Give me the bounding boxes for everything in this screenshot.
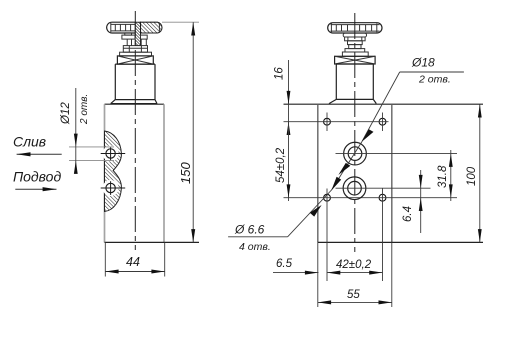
mounting hole top-right [379,113,386,132]
svg-text:6.4: 6.4 [402,206,414,222]
washer tab left [125,33,132,35]
svg-text:54±0,2: 54±0,2 [275,147,287,183]
svg-text:150: 150 [178,162,193,184]
dimension 54+-0,2 [275,122,290,201]
dimension 16 [274,60,291,135]
dimension 6.5 [273,258,319,275]
svg-text:6.5: 6.5 [276,258,293,270]
mounting hole top-left [324,113,331,132]
stem upper [348,41,363,45]
lock box with cross [117,56,153,64]
handwheel right half (hatched section) [141,22,163,33]
svg-text:42±0,2: 42±0,2 [336,259,372,271]
svg-text:Ø12: Ø12 [60,102,72,125]
dimension D12 [60,88,114,174]
dimension 150 [162,22,199,242]
dimension 44 [105,242,164,276]
leader D18 [331,56,464,191]
port bores (white) [103,146,119,162]
port crosshair lower [101,181,126,195]
port circle upper (D18) [336,142,458,165]
svg-text:55: 55 [347,289,360,301]
svg-text:Ø18: Ø18 [411,56,435,70]
washer left [122,35,135,39]
port circle upper [106,149,115,158]
mounting hole bottom-right [379,189,386,282]
stem sides [126,39,128,46]
svg-text:44: 44 [126,255,140,269]
port circle lower (D18) [336,177,431,200]
svg-text:2 отв.: 2 отв. [418,74,451,86]
body (left view) [105,104,200,242]
stem flange [345,49,365,52]
bonnet (front) [336,64,373,99]
svg-text:100: 100 [466,166,478,186]
flow arrow drain [17,152,62,156]
dimension 31.8 [437,150,453,201]
washer right [141,35,148,39]
top hole row line [284,121,389,123]
hub flange [345,37,366,41]
port crosshair upper [101,147,126,161]
svg-text:4 отв.: 4 отв. [239,241,271,253]
bottom hole row line [284,197,458,199]
body (front view) [284,104,484,242]
lock box with cross (front) [335,56,376,64]
svg-text:Ø 6.6: Ø 6.6 [234,223,265,237]
nut [123,46,147,53]
dimension 42+-0,2 [327,259,383,275]
stem lower [349,45,361,49]
svg-text:16: 16 [274,67,286,80]
svg-text:2 отв.: 2 отв. [79,94,90,125]
svg-text:Подвод: Подвод [13,169,61,185]
dimension 55 [318,289,392,304]
extension lines below body [318,242,392,307]
dimension 100 [466,104,482,242]
stem in section (hatched strip) [135,22,140,45]
handwheel (front) [328,23,382,33]
bonnet flare (front) [329,99,376,103]
hub collar [343,33,366,37]
mounting hole bottom-left [324,189,331,282]
flow arrow supply [15,187,56,191]
centerline (left view) [134,11,136,250]
handwheel left half (knurled) [107,22,135,33]
dimension 6.4 [402,170,423,233]
port boss (hatched section on body left edge) [105,131,122,212]
bonnet flare [111,100,157,104]
stem base [342,52,368,56]
bonnet [115,64,155,100]
centerline (front view) [354,13,356,252]
leader D6.6 [228,190,331,253]
port circle lower [106,183,115,192]
plate [120,52,152,56]
svg-text:Слив: Слив [13,134,46,150]
svg-text:31.8: 31.8 [437,165,449,188]
